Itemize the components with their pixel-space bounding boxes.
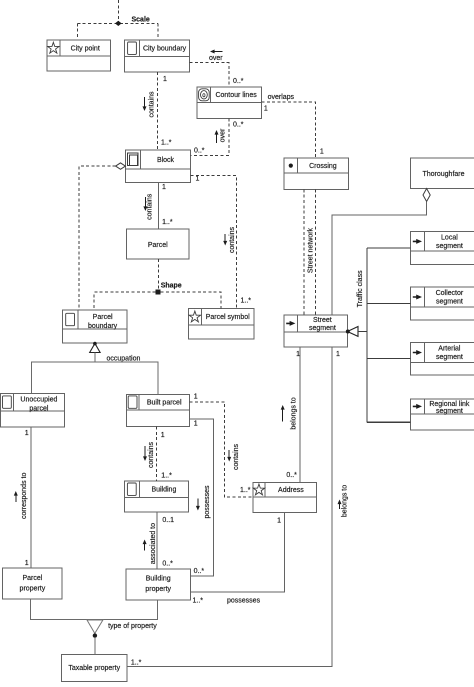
svg-text:belongs to: belongs to [342, 485, 349, 517]
dependency contains City boundary to Block [143, 72, 172, 150]
class Thoroughfare [411, 158, 474, 189]
svg-text:contains: contains [149, 91, 156, 118]
svg-text:Regional link: Regional link [429, 401, 470, 408]
svg-text:0..1: 0..1 [162, 517, 174, 524]
svg-text:type of property: type of property [108, 623, 157, 630]
wire trunk to Arterial segment [367, 358, 411, 360]
svg-text:Unoccupied: Unoccupied [20, 397, 57, 404]
class Built parcel [126, 394, 189, 426]
svg-text:1: 1 [277, 518, 281, 525]
class Street segment [284, 315, 347, 347]
svg-text:Block: Block [157, 157, 175, 164]
svg-text:1: 1 [336, 351, 340, 358]
node Shape (filled square) with label [156, 283, 182, 295]
svg-text:0..*: 0..* [194, 568, 205, 575]
svg-text:1..*: 1..* [161, 140, 172, 147]
svg-text:1: 1 [163, 76, 167, 83]
wire dashed stem from top edge to Scale diamond [117, 0, 119, 23]
svg-text:1: 1 [25, 560, 29, 567]
class Address [253, 482, 317, 512]
svg-text:over: over [209, 55, 223, 62]
svg-text:Address: Address [278, 487, 304, 494]
svg-text:1: 1 [264, 106, 268, 113]
svg-text:Shape: Shape [161, 283, 182, 290]
class City boundary [124, 40, 189, 72]
svg-text:occupation: occupation [107, 356, 141, 363]
svg-text:boundary: boundary [88, 323, 118, 330]
svg-text:corresponds to: corresponds to [21, 473, 28, 519]
svg-text:segment: segment [436, 299, 463, 306]
svg-text:Scale: Scale [132, 17, 150, 24]
svg-text:1..*: 1..* [131, 660, 142, 667]
svg-text:possesses: possesses [227, 598, 261, 605]
dependency contains Built parcel to Address [190, 394, 253, 498]
association associated to: Building - Building property [143, 512, 175, 569]
dependency Street network Crossing to Street segment (right line) [315, 189, 317, 315]
class Local segment [410, 232, 474, 265]
svg-text:1..*: 1..* [241, 298, 252, 305]
svg-text:parcel: parcel [29, 405, 49, 412]
svg-text:Crossing: Crossing [309, 163, 337, 170]
svg-text:associated to: associated to [150, 523, 157, 564]
svg-text:contains: contains [148, 441, 155, 468]
svg-text:1: 1 [196, 176, 200, 183]
svg-text:Parcel symbol: Parcel symbol [206, 314, 250, 321]
aggregation Block composed in (left hollow diamond) to Parcel boundary [79, 163, 125, 310]
association corresponds to: Unoccupied parcel - Parcel property [14, 427, 31, 568]
dependency Parcel to Shape node [157, 259, 159, 290]
class Building [124, 481, 188, 512]
svg-text:Traffic class: Traffic class [357, 270, 364, 307]
svg-text:Parcel: Parcel [148, 242, 168, 249]
dependency contains Block to Parcel symbol [191, 176, 252, 309]
generalization segments to Street segment (hollow triangle + trunk) [346, 248, 367, 422]
svg-text:0..*: 0..* [162, 560, 173, 567]
svg-text:0..*: 0..* [233, 122, 244, 129]
dependency over Contour lines to Block [191, 118, 244, 155]
svg-text:Local: Local [441, 235, 458, 242]
svg-text:0..*: 0..* [233, 78, 244, 85]
svg-text:Contour lines: Contour lines [215, 92, 257, 99]
association belongs to: Street segment - Address [281, 347, 300, 482]
svg-text:1: 1 [162, 184, 166, 191]
class Contour lines [197, 87, 261, 118]
class Block [125, 150, 190, 182]
svg-text:1: 1 [194, 394, 198, 401]
wire trunk to Regional link segment [367, 421, 411, 423]
svg-text:1..*: 1..* [193, 598, 204, 605]
svg-text:City point: City point [71, 45, 100, 52]
dependency Street network Crossing to Street segment (left line) [303, 189, 305, 315]
svg-text:property: property [145, 586, 171, 593]
aggregation Thoroughfare (hollow diamond) to Street segment [332, 189, 430, 315]
svg-text:1: 1 [161, 432, 165, 439]
svg-text:contains: contains [147, 193, 154, 220]
association possesses: Address - Building property [190, 513, 284, 605]
wire dashed Shape to Parcel boundary [94, 292, 156, 310]
svg-text:overlaps: overlaps [268, 94, 295, 101]
dependency overlaps Contour lines to Crossing [262, 94, 324, 158]
svg-text:contains: contains [229, 226, 236, 253]
svg-text:segment: segment [436, 408, 463, 415]
svg-text:Thoroughfare: Thoroughfare [422, 171, 464, 178]
svg-text:1..*: 1..* [240, 487, 251, 494]
wire trunk to Collector segment [367, 303, 411, 305]
class Parcel property [3, 568, 63, 599]
svg-text:over: over [220, 128, 227, 142]
svg-text:Street network: Street network [308, 227, 315, 273]
class Building property [126, 569, 190, 600]
svg-text:1: 1 [296, 351, 300, 358]
svg-text:property: property [20, 586, 46, 593]
svg-text:segment: segment [309, 325, 336, 332]
svg-text:possesses: possesses [204, 485, 211, 519]
svg-text:Parcel: Parcel [93, 314, 113, 321]
class Parcel symbol [188, 309, 254, 340]
class Crossing [284, 158, 348, 189]
svg-text:Building: Building [151, 487, 176, 494]
svg-text:segment: segment [436, 354, 463, 361]
class Unoccupied parcel [1, 393, 65, 427]
wire dashed drop to City boundary [157, 23, 159, 40]
svg-text:1: 1 [194, 420, 198, 427]
svg-text:Taxable property: Taxable property [68, 665, 120, 672]
association belongs to: Street segment - Taxable property [127, 347, 349, 667]
wire trunk to Local segment [367, 247, 411, 249]
generalization occupation: Unoccupied/Built parcel to Parcel boundary [32, 342, 158, 395]
svg-text:Street: Street [313, 317, 332, 324]
svg-text:Built parcel: Built parcel [147, 400, 182, 407]
svg-text:City boundary: City boundary [143, 46, 187, 53]
dependency contains Built parcel to Building [143, 427, 172, 482]
svg-text:Parcel: Parcel [22, 575, 42, 582]
link type of property: properties to Taxable property [31, 599, 158, 654]
class Taxable property [61, 655, 127, 682]
class Collector segment [410, 287, 474, 320]
wire dashed horizontal Scale bar [77, 22, 158, 24]
svg-text:segment: segment [436, 243, 463, 250]
svg-text:contains: contains [233, 443, 240, 470]
association possesses: Built parcel - Building property [190, 419, 214, 576]
class Parcel [126, 229, 189, 259]
svg-text:Arterial: Arterial [438, 346, 461, 353]
class City point [47, 40, 111, 71]
class Arterial segment [410, 342, 474, 375]
svg-text:Building: Building [146, 575, 171, 582]
class Parcel boundary [62, 310, 127, 343]
node Scale (filled diamond) [115, 17, 150, 27]
svg-text:belongs to: belongs to [290, 397, 297, 429]
svg-text:1: 1 [25, 430, 29, 437]
svg-text:1: 1 [320, 149, 324, 156]
wire dashed Shape to Parcel symbol [161, 292, 221, 309]
dependency over City boundary to Contour lines [190, 50, 244, 88]
svg-text:1..*: 1..* [162, 219, 173, 226]
class Regional link segment [410, 399, 474, 430]
svg-text:Collector: Collector [436, 290, 464, 297]
svg-text:0..*: 0..* [286, 472, 297, 479]
svg-text:1..*: 1..* [161, 473, 172, 480]
svg-text:0..*: 0..* [194, 148, 205, 155]
wire dashed drop to City point [76, 23, 78, 40]
association contains Block to Parcel [143, 182, 172, 229]
